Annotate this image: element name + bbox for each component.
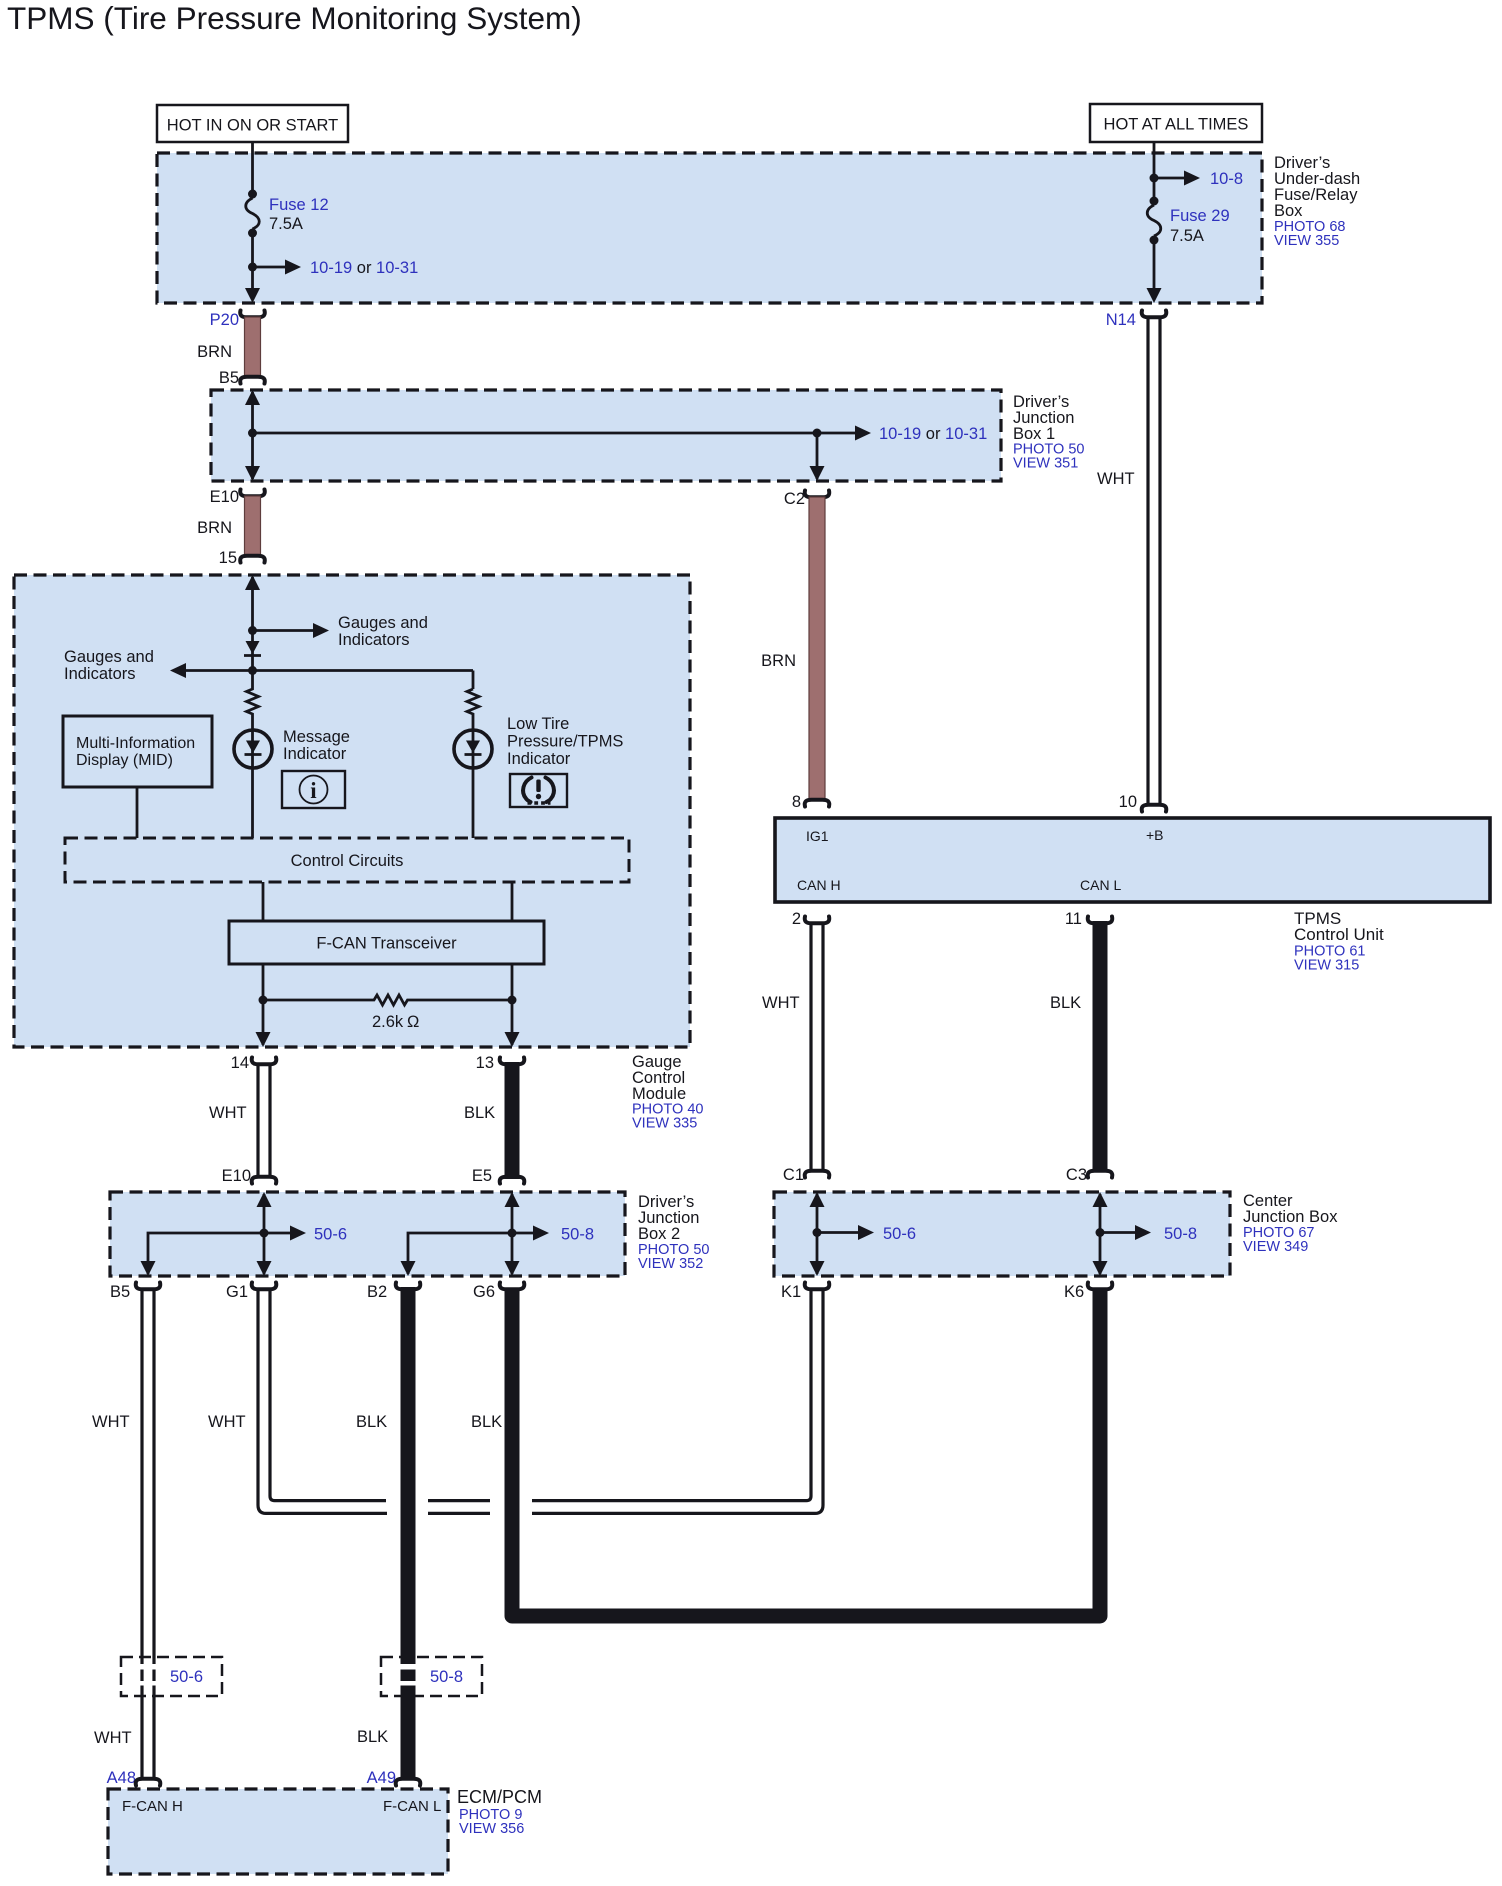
wire BLK 11 to C3: [1093, 921, 1108, 1172]
svg-text:WHT: WHT: [94, 1729, 132, 1747]
svg-text:K6: K6: [1064, 1283, 1084, 1301]
inline connector 50-8: [381, 1657, 482, 1696]
wire arrow to Gauges and Indicators (left): [185, 669, 473, 672]
svg-text:K1: K1: [781, 1283, 801, 1301]
svg-text:Fuse 12: Fuse 12: [269, 196, 329, 214]
wire F-CAN H out: [262, 964, 265, 1045]
wire C2 drop: [816, 433, 819, 479]
inline connector 50-6: [121, 1657, 222, 1696]
lamp Low Tire Pressure/TPMS Indicator: [472, 730, 475, 838]
svg-text:N14: N14: [1106, 311, 1136, 329]
svg-text:BLK: BLK: [471, 1413, 502, 1431]
svg-text:Module: Module: [632, 1085, 686, 1103]
svg-text:HOT IN ON OR START: HOT IN ON OR START: [167, 117, 338, 135]
svg-text:WHT: WHT: [92, 1413, 130, 1431]
svg-text:C3: C3: [1066, 1166, 1087, 1184]
node gauges branch right: [248, 626, 257, 635]
svg-text:VIEW 355: VIEW 355: [1274, 233, 1339, 249]
wire C3 through box to K6: [1099, 1194, 1102, 1274]
wire control circuits to F-CAN transceiver (right): [511, 882, 514, 921]
svg-text:F-CAN H: F-CAN H: [122, 1798, 183, 1815]
Gauge Control Module box: [14, 575, 690, 1047]
wire BLK B2 down to 50-8 connector: [401, 1287, 416, 1664]
svg-text:P20: P20: [210, 311, 239, 329]
wire below fuse 29: [1153, 244, 1156, 289]
svg-text:WHT: WHT: [1097, 470, 1135, 488]
svg-text:E10: E10: [222, 1167, 251, 1185]
ECM/PCM box: [108, 1789, 448, 1874]
svg-text:8: 8: [792, 793, 801, 811]
svg-text:50-8: 50-8: [1164, 1225, 1197, 1243]
svg-text:Gauges and: Gauges and: [64, 648, 154, 666]
svg-text:50-6: 50-6: [314, 1226, 347, 1244]
svg-text:Pressure/TPMS: Pressure/TPMS: [507, 733, 623, 751]
svg-text:Indicators: Indicators: [338, 631, 410, 649]
svg-text:50-6: 50-6: [170, 1668, 203, 1686]
wire arrow to 10-19 or 10-31: [817, 432, 856, 435]
F-CAN Transceiver block: [229, 921, 544, 964]
lamp Message Indicator: [251, 730, 254, 838]
fuse F29 node top: [1150, 197, 1159, 206]
power label HOT AT ALL TIMES: [1090, 104, 1262, 142]
wire branch to B5: [148, 1233, 264, 1274]
svg-text:Box: Box: [1274, 202, 1303, 220]
fuse F12 element: [246, 198, 260, 229]
svg-text:E10: E10: [210, 488, 239, 506]
wire WHT B5 down to 50-6 connector: [140, 1290, 143, 1781]
svg-text:BLK: BLK: [1050, 994, 1081, 1012]
Multi-Information Display (MID): [63, 716, 212, 787]
fuse F12 node top: [248, 190, 257, 199]
svg-text:CAN H: CAN H: [797, 877, 841, 893]
svg-text:G1: G1: [226, 1283, 248, 1301]
node branch to 10-19 or 10-31: [248, 263, 257, 272]
svg-text:Indicator: Indicator: [283, 745, 347, 763]
fuse F29 node bottom: [1150, 236, 1159, 245]
wire branch arrow to 10-8: [1154, 177, 1185, 180]
svg-text:10-19 or 10-31: 10-19 or 10-31: [879, 425, 987, 443]
svg-text:Gauges and: Gauges and: [338, 614, 428, 632]
svg-text:+B: +B: [1146, 827, 1164, 843]
svg-text:B5: B5: [110, 1283, 130, 1301]
wire pin15 entry into GCM: [251, 577, 254, 671]
svg-text:Box 2: Box 2: [638, 1225, 680, 1243]
wire BRN C2 to 8: [809, 497, 825, 800]
wire WHT 2 to C1: [809, 924, 812, 1173]
node 50-8 branch (center): [1096, 1228, 1105, 1237]
wire from HOT AT ALL TIMES into fuse box: [1153, 142, 1156, 197]
svg-text:BLK: BLK: [356, 1413, 387, 1431]
svg-text:E5: E5: [472, 1167, 492, 1185]
svg-text:i: i: [310, 778, 317, 803]
Center Junction Box: [774, 1192, 1230, 1276]
arrow to P20: [245, 288, 260, 303]
wire arrow to 50-6 (center): [817, 1231, 859, 1234]
wire BRN P20 to B5: [245, 317, 261, 377]
label Gauge Control Module: [632, 1053, 703, 1132]
svg-text:Junction Box: Junction Box: [1243, 1208, 1338, 1226]
wire MID to control circuits: [136, 787, 139, 838]
node gauges branch left: [248, 666, 257, 675]
svg-text:Fuse 29: Fuse 29: [1170, 207, 1230, 225]
node 50-8 branch: [508, 1229, 517, 1238]
svg-text:10-19 or 10-31: 10-19 or 10-31: [310, 259, 418, 277]
Driver's Under-dash Fuse/Relay Box: [157, 153, 1262, 303]
wire BRN E10 to 15: [245, 496, 261, 556]
svg-text:50-8: 50-8: [430, 1668, 463, 1686]
wire WHT 14 to E10: [256, 1065, 259, 1179]
wire drop to low tire indicator: [472, 671, 475, 690]
label TPMS Control Unit: [1294, 909, 1384, 974]
svg-text:15: 15: [219, 549, 237, 567]
wire BLK 13 to E5: [505, 1062, 520, 1179]
wire from HOT IN ON OR START into fuse box: [251, 142, 254, 190]
svg-text:Control Circuits: Control Circuits: [291, 852, 404, 870]
wire WHT N14 to 10: [1146, 318, 1149, 807]
svg-text:VIEW 356: VIEW 356: [459, 1821, 524, 1837]
svg-text:VIEW 315: VIEW 315: [1294, 958, 1359, 974]
node 50-6 branch (center): [813, 1228, 822, 1237]
svg-text:50-6: 50-6: [883, 1225, 916, 1243]
resistor 2.6k ohm: [263, 995, 512, 1005]
svg-text:F-CAN Transceiver: F-CAN Transceiver: [316, 935, 457, 953]
arrow to N14: [1147, 288, 1162, 303]
svg-text:HOT AT ALL TIMES: HOT AT ALL TIMES: [1104, 116, 1249, 134]
svg-text:BRN: BRN: [197, 343, 232, 361]
label Driver's Junction Box 2: [638, 1193, 709, 1272]
fuse F29 element: [1147, 205, 1161, 236]
label Driver's Junction Box 1: [1013, 393, 1084, 472]
svg-text:Low Tire: Low Tire: [507, 715, 569, 733]
resistor (message indicator feed): [247, 671, 259, 731]
label Driver's Under-dash Fuse/Relay Box: [1274, 154, 1360, 249]
wire through junction box 1: [251, 392, 254, 479]
svg-text:A49: A49: [367, 1769, 396, 1787]
fuse F12 node bottom: [248, 229, 257, 238]
svg-text:BRN: BRN: [761, 652, 796, 670]
svg-text:CAN L: CAN L: [1080, 877, 1121, 893]
svg-text:VIEW 349: VIEW 349: [1243, 1239, 1308, 1255]
svg-text:C2: C2: [784, 490, 805, 508]
svg-text:Multi-Information: Multi-Information: [76, 735, 195, 752]
svg-text:BLK: BLK: [464, 1104, 495, 1122]
svg-text:BRN: BRN: [197, 519, 232, 537]
wire BLK G6 to K6: [512, 1288, 1100, 1616]
wire arrow to Gauges and Indicators (right): [253, 629, 314, 632]
node 50-6 branch: [260, 1229, 269, 1238]
svg-text:C1: C1: [783, 1166, 804, 1184]
svg-text:Message: Message: [283, 728, 350, 746]
wire bus to C2 branch: [253, 432, 818, 435]
svg-text:10-8: 10-8: [1210, 170, 1243, 188]
svg-text:F-CAN L: F-CAN L: [383, 1798, 441, 1815]
svg-text:G6: G6: [473, 1283, 495, 1301]
wire branch to B2: [408, 1233, 512, 1274]
svg-text:7.5A: 7.5A: [1170, 227, 1204, 245]
power label HOT IN ON OR START: [157, 105, 348, 142]
svg-text:A48: A48: [107, 1769, 136, 1787]
node terminating resistor left: [259, 996, 268, 1005]
svg-text:11: 11: [1065, 910, 1082, 928]
svg-text:Ω: Ω: [407, 1013, 419, 1031]
svg-text:B5: B5: [219, 369, 239, 387]
Driver's Junction Box 1: [211, 390, 1001, 481]
label Center Junction Box: [1243, 1192, 1338, 1255]
wire branch arrow to 10-19 or 10-31: [253, 266, 287, 269]
svg-text:WHT: WHT: [209, 1104, 247, 1122]
svg-text:10: 10: [1119, 793, 1137, 811]
node branch to 10-8: [1150, 174, 1159, 183]
wire F-CAN L out: [511, 964, 514, 1045]
wire WHT G1 to K1 (outer line): [258, 1290, 823, 1514]
wire arrow to 50-8: [512, 1232, 534, 1235]
node junction box 1 branch: [248, 429, 257, 438]
wire arrow to 50-8 (center): [1100, 1231, 1136, 1234]
wire control circuits to F-CAN transceiver (left): [262, 882, 265, 921]
svg-text:BLK: BLK: [357, 1728, 388, 1746]
node C2 branch: [813, 429, 822, 438]
wire WHT G1 to K1 (inner line): [270, 1290, 811, 1501]
diode mark on feed wire: [246, 641, 260, 654]
svg-text:WHT: WHT: [208, 1413, 246, 1431]
svg-text:Indicator: Indicator: [507, 750, 571, 768]
label ECM/PCM: [457, 1787, 542, 1837]
svg-text:VIEW 352: VIEW 352: [638, 1256, 703, 1272]
svg-text:Control Unit: Control Unit: [1294, 925, 1384, 944]
svg-text:13: 13: [476, 1054, 494, 1072]
svg-text:VIEW 351: VIEW 351: [1013, 456, 1078, 472]
icon message indicator: [282, 771, 345, 808]
svg-text:50-8: 50-8: [561, 1226, 594, 1244]
svg-text:IG1: IG1: [806, 828, 829, 844]
Driver's Junction Box 2: [110, 1192, 625, 1276]
svg-text:Display (MID): Display (MID): [76, 752, 173, 769]
svg-text:2.6k: 2.6k: [372, 1013, 404, 1031]
svg-text:Indicators: Indicators: [64, 665, 136, 683]
wire E10 through box to G1: [263, 1194, 266, 1274]
svg-text:B2: B2: [367, 1283, 387, 1301]
svg-text:VIEW 335: VIEW 335: [632, 1116, 697, 1132]
TPMS Control Unit box: [775, 818, 1490, 902]
svg-text:2: 2: [792, 910, 801, 928]
svg-text:14: 14: [231, 1054, 249, 1072]
wire below fuse 12: [251, 237, 254, 289]
wire arrow to 50-6: [264, 1232, 291, 1235]
svg-text:TPMS (Tire Pressure Monitoring: TPMS (Tire Pressure Monitoring System): [7, 0, 582, 36]
node terminating resistor right: [508, 996, 517, 1005]
svg-text:Box 1: Box 1: [1013, 425, 1055, 443]
wire C1 through box to K1: [816, 1194, 819, 1274]
icon low tire pressure TPMS: [510, 774, 567, 807]
resistor (low tire indicator feed): [467, 689, 479, 730]
Control Circuits block: [65, 838, 629, 882]
svg-text:ECM/PCM: ECM/PCM: [457, 1787, 542, 1807]
svg-text:WHT: WHT: [762, 994, 800, 1012]
wire E5 through box to G6: [511, 1194, 514, 1274]
svg-text:7.5A: 7.5A: [269, 215, 303, 233]
